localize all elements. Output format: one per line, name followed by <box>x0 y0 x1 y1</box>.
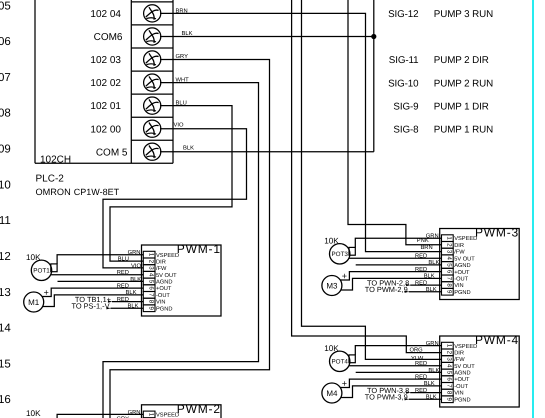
svg-text:AGND: AGND <box>454 263 470 269</box>
svg-text:PWM-1: PWM-1 <box>177 242 221 256</box>
svg-text:06: 06 <box>0 36 11 48</box>
svg-text:VIO: VIO <box>174 121 184 128</box>
svg-text:10K: 10K <box>26 253 41 262</box>
svg-text:14: 14 <box>0 323 11 335</box>
svg-text:8: 8 <box>445 283 452 287</box>
svg-text:1: 1 <box>147 413 154 417</box>
svg-text:VIN: VIN <box>454 391 463 397</box>
svg-text:+OUT: +OUT <box>156 286 172 292</box>
svg-text:M3: M3 <box>326 282 338 291</box>
svg-text:4: 4 <box>445 364 452 368</box>
svg-text:M1: M1 <box>28 298 40 307</box>
svg-text:7: 7 <box>147 293 154 297</box>
svg-text:1: 1 <box>445 344 452 348</box>
svg-text:3: 3 <box>445 250 452 254</box>
svg-text:COM6: COM6 <box>94 32 123 43</box>
svg-text:PWM-2: PWM-2 <box>177 402 221 416</box>
svg-text:11: 11 <box>0 215 11 227</box>
svg-text:PUMP 2 RUN: PUMP 2 RUN <box>434 78 493 89</box>
svg-text:102 01: 102 01 <box>90 101 121 112</box>
svg-text:VIN: VIN <box>454 283 463 289</box>
svg-text:5V OUT: 5V OUT <box>454 364 475 370</box>
svg-text:2: 2 <box>446 243 453 247</box>
svg-text:102 03: 102 03 <box>90 55 121 66</box>
svg-text:CP1W-8ET: CP1W-8ET <box>74 187 120 197</box>
svg-text:-OUT: -OUT <box>156 293 170 299</box>
svg-text:9: 9 <box>147 307 154 311</box>
svg-text:05: 05 <box>0 0 11 12</box>
svg-text:6: 6 <box>445 270 452 274</box>
svg-text:16: 16 <box>0 394 11 406</box>
svg-text:1: 1 <box>147 253 154 257</box>
svg-text:SIG-10: SIG-10 <box>388 78 419 89</box>
svg-text:VSPEED: VSPEED <box>156 413 179 418</box>
svg-text:7: 7 <box>445 384 452 388</box>
svg-text:PNK: PNK <box>417 238 429 244</box>
svg-text:8: 8 <box>445 391 452 395</box>
svg-text:7: 7 <box>445 277 452 281</box>
svg-text:10: 10 <box>0 179 11 191</box>
svg-text:102 00: 102 00 <box>90 124 121 135</box>
svg-text:1: 1 <box>445 236 452 240</box>
svg-text:VSPEED: VSPEED <box>454 344 477 350</box>
svg-text:BRN: BRN <box>420 245 432 251</box>
svg-text:OMRON: OMRON <box>36 187 71 197</box>
svg-text:SIG-11: SIG-11 <box>389 55 419 66</box>
svg-text:POT3: POT3 <box>331 251 348 258</box>
svg-text:PGND: PGND <box>454 290 470 296</box>
svg-text:ORG: ORG <box>409 347 423 354</box>
svg-text:8: 8 <box>147 300 154 304</box>
svg-text:+OUT: +OUT <box>454 270 470 276</box>
svg-text:13: 13 <box>0 287 11 299</box>
svg-text:4: 4 <box>147 273 154 277</box>
svg-text:PWM-4: PWM-4 <box>475 333 519 347</box>
svg-text:10K: 10K <box>324 237 339 246</box>
svg-text:12: 12 <box>0 251 11 263</box>
svg-text:6: 6 <box>147 286 154 290</box>
svg-text:VIO: VIO <box>131 262 141 269</box>
svg-text:SIG-8: SIG-8 <box>393 124 419 135</box>
svg-text:M4: M4 <box>326 389 338 398</box>
svg-text:08: 08 <box>0 108 11 120</box>
svg-text:-OUT: -OUT <box>454 384 468 390</box>
svg-text:-OUT: -OUT <box>454 277 468 283</box>
svg-text:PUMP 1 DIR: PUMP 1 DIR <box>434 101 489 112</box>
svg-text:AGND: AGND <box>454 371 470 377</box>
svg-text:SIG-12: SIG-12 <box>388 9 418 20</box>
svg-text:/FW: /FW <box>454 249 465 256</box>
svg-text:COM 5: COM 5 <box>96 147 128 158</box>
svg-text:SIG-9: SIG-9 <box>393 101 418 112</box>
svg-text:VSPEED: VSPEED <box>454 236 477 242</box>
svg-text:09: 09 <box>0 144 11 156</box>
svg-text:PLC-2: PLC-2 <box>36 174 65 185</box>
svg-text:PUMP 2 DIR: PUMP 2 DIR <box>434 55 489 66</box>
svg-text:/FW: /FW <box>156 265 167 272</box>
svg-text:TO PWM-2,9: TO PWM-2,9 <box>365 285 408 294</box>
svg-text:BLU: BLU <box>118 257 129 263</box>
svg-text:10K: 10K <box>26 409 41 418</box>
svg-text:4: 4 <box>446 257 453 261</box>
svg-text:102 02: 102 02 <box>90 78 121 89</box>
svg-text:9: 9 <box>445 290 452 294</box>
svg-text:+OUT: +OUT <box>454 377 470 383</box>
svg-text:POT4: POT4 <box>331 359 348 366</box>
svg-text:15: 15 <box>0 358 11 370</box>
svg-text:VSPEED: VSPEED <box>156 253 179 259</box>
svg-text:PWM-3: PWM-3 <box>475 226 519 240</box>
svg-text:PGND: PGND <box>454 397 470 403</box>
svg-text:DIR: DIR <box>454 351 464 357</box>
svg-text:TO PS-1,-V: TO PS-1,-V <box>71 302 109 311</box>
svg-text:VIN: VIN <box>156 300 165 306</box>
svg-text:2: 2 <box>147 260 154 264</box>
svg-text:5: 5 <box>445 263 452 267</box>
svg-text:BLK: BLK <box>183 146 194 152</box>
svg-text:10K: 10K <box>324 344 339 353</box>
svg-text:9: 9 <box>445 398 452 402</box>
svg-text:3: 3 <box>445 357 452 361</box>
svg-text:102CH: 102CH <box>40 154 71 165</box>
svg-text:TO PWM-3,9: TO PWM-3,9 <box>365 393 408 402</box>
svg-text:5: 5 <box>147 280 154 284</box>
svg-text:102 04: 102 04 <box>90 9 121 20</box>
svg-text:DIR: DIR <box>454 243 464 249</box>
svg-text:PUMP 1 RUN: PUMP 1 RUN <box>434 124 493 135</box>
svg-text:07: 07 <box>0 72 11 84</box>
svg-text:POT1: POT1 <box>33 268 50 275</box>
svg-text:2: 2 <box>445 351 452 355</box>
svg-text:YLW: YLW <box>411 356 424 362</box>
svg-text:AGND: AGND <box>156 280 172 286</box>
svg-text:/FW: /FW <box>454 356 465 363</box>
svg-text:5: 5 <box>445 371 452 375</box>
svg-text:PGND: PGND <box>156 306 172 312</box>
svg-text:5V OUT: 5V OUT <box>454 256 475 262</box>
svg-text:6: 6 <box>445 377 452 381</box>
svg-text:PUMP 3 RUN: PUMP 3 RUN <box>434 9 493 20</box>
svg-text:5V OUT: 5V OUT <box>156 273 177 279</box>
svg-text:DIR: DIR <box>156 260 166 266</box>
svg-text:3: 3 <box>147 266 154 270</box>
